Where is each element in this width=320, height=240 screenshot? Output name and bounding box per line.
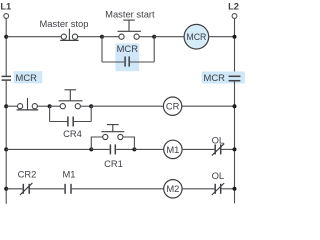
pushbutton Master stop (NC) (40, 18, 89, 41)
wire MCR seal-in branch right (153, 37, 155, 62)
svg-text:M1: M1 (166, 144, 179, 155)
svg-text:L1: L1 (0, 2, 11, 12)
wire right rail lower (234, 81, 236, 203)
wire CR4 branch left (49, 106, 51, 121)
junction rung1 branch left (100, 35, 104, 39)
junction rung2/right rail (233, 104, 237, 108)
contact OL (NC) rung4 (212, 183, 224, 195)
wire rung4 d (182, 188, 214, 190)
wire left rail lower (5, 80, 7, 204)
junction rung2/left rail (4, 104, 8, 108)
wire MCR seal-in branch left (101, 37, 103, 62)
wire left rail upper (5, 18, 7, 76)
coil M1 (164, 140, 182, 158)
junction rung1/left rail (4, 35, 8, 39)
wire rung4 c (72, 188, 164, 190)
wire rung3 a (6, 148, 91, 150)
coil MCR (184, 24, 209, 49)
terminal L1 (4, 14, 9, 19)
wire CR1 pushbutton branch right (123, 137, 134, 149)
pushbutton start (NO) rung2 (59, 90, 83, 109)
svg-text:Master start: Master start (105, 9, 155, 20)
wire rung3 e (182, 148, 214, 150)
wire CR4 branch bottom left (50, 121, 68, 123)
svg-text:CR1: CR1 (104, 158, 123, 169)
junction rung3/left rail (4, 147, 8, 151)
wire CR4 branch right (90, 106, 92, 121)
wire rung3 b (91, 148, 109, 150)
svg-text:M1: M1 (62, 169, 75, 180)
wire rung2 b (37, 105, 49, 107)
contact MCR seal-in (NO) (125, 56, 129, 66)
wire CR1 pushbutton branch left (91, 137, 102, 149)
terminal L2 (232, 14, 237, 19)
wire rung4 a (6, 188, 22, 190)
wire rung3 f (222, 148, 235, 150)
svg-text:CR: CR (166, 101, 180, 112)
wire MCR seal-in branch bottom left (102, 61, 124, 63)
svg-text:M2: M2 (166, 183, 179, 194)
wire rung1 e (154, 36, 184, 38)
wire rung1 b (78, 36, 102, 38)
svg-text:CR2: CR2 (18, 169, 37, 180)
wire rung2 a (6, 105, 17, 107)
wire rung2 d (80, 105, 91, 107)
coil CR (163, 97, 181, 115)
pushbutton CR1 (NO) (101, 125, 124, 140)
label MCR (right rail) (202, 72, 245, 84)
svg-text:MCR: MCR (16, 72, 38, 83)
junction rung4/left rail (4, 187, 8, 191)
svg-text:Master stop: Master stop (40, 18, 89, 29)
svg-text:MCR: MCR (204, 72, 226, 83)
wire rung4 b (30, 188, 64, 190)
contact MCR left rail (2, 76, 12, 80)
wire rung1 f (209, 36, 235, 38)
contact OL (NC) rung3 (212, 144, 224, 156)
contact CR4 (NO) (68, 117, 73, 127)
wire rung1 d (139, 36, 154, 38)
junction rung1/right rail (233, 35, 237, 39)
wire rung3 d (134, 148, 163, 150)
pushbutton stop (NC) rung2 (17, 98, 39, 110)
svg-text:CR4: CR4 (63, 128, 82, 139)
wire MCR seal-in branch bottom right (130, 61, 154, 63)
svg-text:OL: OL (212, 134, 225, 145)
wire rung2 f (182, 105, 235, 107)
label MCR (left rail) (14, 71, 43, 83)
wire rung2 e (91, 105, 163, 107)
wire rung4 e (222, 188, 235, 190)
label MCR (seal-in contact) (115, 44, 139, 72)
junction rung2 branch right (89, 104, 93, 108)
pushbutton Master start (NO) (105, 9, 155, 40)
wire rung1 a (6, 36, 61, 38)
contact M1 (NO) (65, 184, 71, 194)
svg-text:OL: OL (212, 170, 225, 181)
junction rung1 branch right (152, 35, 156, 39)
contact CR1 (NO) (110, 144, 115, 154)
wire right rail upper (234, 18, 236, 76)
junction rung3 branch right (132, 147, 136, 151)
svg-text:MCR: MCR (186, 32, 206, 42)
wire rung3 c (116, 148, 134, 150)
junction rung3 branch left (89, 147, 93, 151)
contact CR2 (NC) (20, 183, 32, 195)
wire rung1 c (102, 36, 119, 38)
svg-text:L2: L2 (228, 2, 239, 12)
svg-text:MCR: MCR (117, 43, 139, 54)
contact MCR right rail (229, 76, 241, 80)
wire CR4 branch bottom right (74, 121, 92, 123)
junction rung2 branch left (48, 104, 52, 108)
junction rung4/right rail (233, 187, 237, 191)
junction rung3/right rail (233, 147, 237, 151)
wire rung2 c (50, 105, 61, 107)
coil M2 (164, 180, 182, 198)
